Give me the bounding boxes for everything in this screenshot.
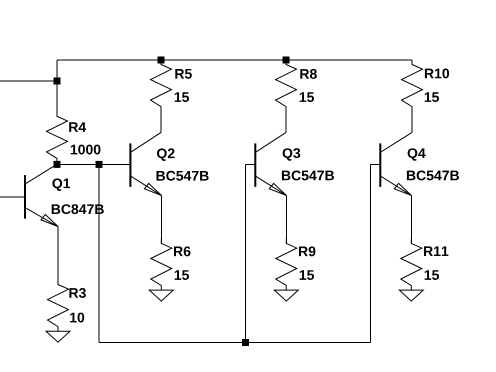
- transistor Q2 base bar: [129, 143, 131, 187]
- node junction bottom rail Q3 base: [242, 339, 249, 346]
- transistor Q3 label: [283, 148, 301, 161]
- transistor Q4 label: [408, 148, 426, 161]
- wire left input stub upper: [0, 80, 57, 82]
- resistor R11 value 15: [425, 270, 439, 280]
- wire bottom rail: [99, 342, 370, 344]
- transistor Q2 emitter arrow: [144, 183, 161, 195]
- transistor Q3 base bar: [254, 143, 256, 187]
- wire Q4 emitter vertical: [410, 195, 412, 243]
- transistor Q4 part number: [407, 171, 459, 181]
- node junction R8 top: [283, 57, 290, 64]
- wire Q4 base stub: [370, 163, 380, 165]
- transistor Q3 collector lead: [255, 132, 286, 152]
- ground below R3: [46, 331, 70, 342]
- transistor Q2 emitter lead: [130, 176, 161, 196]
- wire Q1 emitter vertical: [57, 227, 59, 285]
- transistor Q1 collector lead: [25, 164, 57, 184]
- resistor R8 value 15: [300, 92, 314, 102]
- transistor Q4 base bar: [379, 143, 381, 187]
- wire R10 bottom lead: [411, 110, 413, 132]
- resistor R8 label: [300, 69, 317, 79]
- resistor R5 label: [175, 69, 192, 79]
- resistor R6 value 15: [175, 270, 189, 280]
- resistor R11 label: [424, 246, 448, 256]
- transistor Q3 part number: [282, 171, 334, 181]
- node junction top-left: [54, 78, 61, 85]
- transistor Q3 emitter arrow: [269, 183, 286, 195]
- wire left input stub Q1 base: [0, 196, 25, 198]
- resistor R5: [151, 60, 172, 111]
- resistor R4 label: [69, 122, 86, 132]
- resistor R4 value 1000: [71, 145, 101, 155]
- resistor R3: [48, 280, 69, 331]
- transistor Q1 part number: [52, 204, 104, 214]
- transistor Q4 collector lead: [380, 132, 412, 152]
- node junction base rail drop: [96, 161, 103, 168]
- wire Q2 emitter vertical: [160, 195, 162, 243]
- ground below R11: [399, 290, 423, 301]
- wire base row from R4 bottom to Q2 base: [57, 163, 130, 165]
- transistor Q4 emitter lead: [380, 176, 411, 196]
- resistor R10 label: [425, 69, 449, 79]
- wire Q4 base vertical rail: [369, 164, 371, 342]
- wire R8 bottom lead: [285, 110, 287, 132]
- resistor R9 value 15: [300, 270, 314, 280]
- resistor R6 label: [174, 246, 190, 256]
- transistor Q2 part number: [156, 171, 208, 181]
- ground below R6: [149, 290, 173, 301]
- transistor Q2 collector lead: [130, 132, 161, 152]
- wire R5 bottom lead: [160, 110, 162, 132]
- resistor R4: [47, 112, 68, 163]
- transistor Q1 base bar: [24, 175, 26, 219]
- resistor R6: [151, 239, 172, 290]
- resistor R10 value 15: [425, 92, 439, 102]
- resistor R9: [276, 239, 297, 290]
- resistor R8: [276, 60, 297, 111]
- wire vertical from rail corner down to R4: [56, 60, 58, 117]
- node junction R5 top: [158, 57, 165, 64]
- wire Q3 emitter vertical: [285, 195, 287, 243]
- resistor R9 label: [299, 246, 315, 256]
- wire Q3 base stub: [246, 163, 256, 165]
- transistor Q4 emitter arrow: [394, 183, 411, 195]
- transistor Q3 emitter lead: [255, 176, 286, 196]
- wire top supply rail: [57, 59, 412, 61]
- resistor R3 label: [69, 288, 85, 298]
- transistor Q1 emitter lead: [25, 208, 58, 227]
- ground below R9: [274, 290, 298, 301]
- transistor Q1 emitter arrow: [41, 215, 58, 227]
- resistor R10: [402, 60, 423, 111]
- transistor Q2 label: [157, 148, 175, 161]
- transistor Q1 label: [52, 178, 70, 191]
- wire vertical base rail drop to bottom: [98, 164, 100, 342]
- resistor R5 value 15: [175, 92, 189, 102]
- wire Q3 base vertical rail: [245, 164, 247, 342]
- node junction R4 bottom / Q1 collector: [54, 161, 61, 168]
- resistor R3 value 10: [70, 313, 84, 323]
- resistor R11: [401, 239, 422, 290]
